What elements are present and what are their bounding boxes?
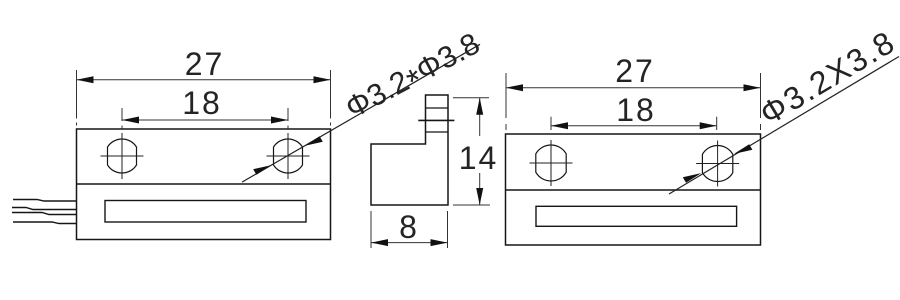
dimension 18 (right view) extension ticks [551,117,717,130]
left body divider line [77,183,331,185]
right body outline [506,134,761,245]
right leader arrow upper-right [734,144,752,154]
right leader arrow lower-left [683,173,701,183]
rib line 3 [426,131,449,133]
leader line (left view hole callout) [242,44,480,182]
dimension 27 (right view) dimension line [506,87,761,89]
right body divider line [506,189,761,191]
right view left hole crosshair [530,140,573,186]
dimension 8 dimension line [371,242,448,244]
right view right hole crosshair [696,141,739,187]
svg-text:27: 27 [615,53,655,89]
side profile outline [371,95,448,205]
wire 3 [12,213,77,215]
svg-text:27: 27 [185,46,225,82]
left body slot [105,201,306,223]
wire 4 [13,222,77,224]
dimension 27 (left view) dimension line [77,79,331,81]
rib line 1 [426,107,449,109]
dimension 8 extension lines [371,211,448,248]
left view right mounting hole [274,139,303,173]
right body slot [536,206,737,226]
rib line 2 (wide) [418,119,454,121]
dimension 14 extension lines [453,98,490,205]
leader arrow upper-right [304,136,322,146]
dimension 18 (left view) dimension line [122,119,288,121]
wire 1 [13,200,77,202]
wire 2 [12,208,77,210]
svg-text:18: 18 [182,85,222,121]
leader arrow lower-left [253,165,271,175]
dimension 14 dimension line (broken for text) [479,98,481,136]
dimension 27 (left view) extension lines [77,70,331,126]
svg-text:8: 8 [399,209,417,245]
svg-text:14: 14 [459,140,499,176]
right view left mounting hole [536,145,566,181]
dimension 27 (right view) extension lines [506,73,761,130]
dimension 18 (right view) dimension line [551,125,717,127]
left view left mounting hole [108,139,137,173]
right hole crosshair [267,133,310,179]
dimension 18 (left view) extension ticks [122,108,288,129]
svg-text:18: 18 [616,92,656,128]
right view right mounting hole [702,145,732,181]
leader line (right view hole callout) [669,57,899,195]
left hole crosshair [101,133,144,179]
left body outline [77,129,331,240]
